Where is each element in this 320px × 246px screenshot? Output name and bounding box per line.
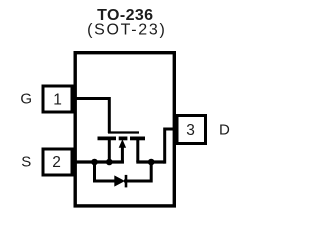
junction dot C (diode cathode tap)	[148, 159, 155, 166]
svg-text:D: D	[219, 121, 230, 138]
wire: diode branch left drop	[95, 162, 117, 181]
wire: source bar to source rail	[108, 139, 111, 163]
wire: gate lead from pin 1	[74, 99, 110, 134]
junction dot B (source tap)	[106, 159, 113, 166]
wire: diode to drain rail riser	[124, 162, 151, 181]
svg-text:S: S	[21, 153, 31, 170]
MOSFET Q1 source channel bar	[98, 136, 117, 140]
pin 1 box	[43, 86, 72, 112]
wire: drain bar down to drain rail	[136, 139, 139, 163]
MOSFET Q1 gate plate	[108, 131, 139, 133]
pin 2 box	[43, 149, 72, 175]
svg-text:(SOT-23): (SOT-23)	[87, 22, 166, 39]
pin 3 box	[177, 116, 206, 144]
body diode D1 anode triangle	[114, 175, 125, 186]
svg-text:2: 2	[52, 154, 61, 171]
wire: drain rail up to pin 3	[165, 129, 176, 164]
MOSFET Q1 body arrow shaft	[121, 147, 124, 164]
MOSFET Q1 body channel bar	[119, 136, 128, 140]
svg-text:G: G	[20, 91, 32, 108]
MOSFET Q1 body arrow head	[119, 139, 126, 148]
wire: source rail from pin 2	[74, 160, 124, 163]
junction dot A (diode tap)	[91, 159, 98, 166]
wire: drain rail	[136, 160, 164, 163]
body diode D1 cathode bar	[125, 175, 128, 188]
svg-text:3: 3	[186, 122, 195, 139]
package body outline	[75, 53, 174, 206]
MOSFET Q1 drain channel bar	[130, 136, 145, 140]
svg-text:1: 1	[53, 92, 62, 109]
